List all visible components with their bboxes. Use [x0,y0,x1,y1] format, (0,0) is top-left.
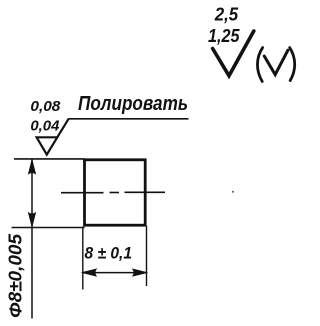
right parenthesis of (v) [290,48,295,81]
small check inside parentheses [264,50,288,74]
part outline square [85,160,146,225]
left parenthesis of (v) [257,48,262,82]
svg-text:Φ8±0,005: Φ8±0,005 [6,233,26,318]
vertical dimension arrow up [28,159,35,174]
right extension line below square [146,226,148,286]
surface roughness check symbol [213,31,254,76]
surface finish triangle symbol [37,119,69,155]
vertical dimension line [31,160,33,319]
horizontal dimension arrow left [82,269,97,276]
leader line of polish note [68,118,188,120]
horizontal dimension line [83,272,147,274]
left extension line below square [82,227,84,290]
bottom surface extension line [12,227,85,229]
centerline long dash left [61,192,104,194]
svg-text:0,04: 0,04 [30,118,59,134]
horizontal dimension arrow right [133,269,148,276]
svg-text:8 ± 0,1: 8 ± 0,1 [85,244,133,263]
svg-text:Полировать: Полировать [78,93,188,115]
stray ink dot [232,191,234,193]
centerline long dash right [125,191,166,193]
svg-text:0,08: 0,08 [30,99,61,115]
centerline short dash [110,192,120,194]
top surface extension line [14,158,85,160]
svg-text:1,25: 1,25 [208,26,240,46]
svg-text:2,5: 2,5 [214,5,239,25]
vertical dimension arrow down [28,213,35,228]
